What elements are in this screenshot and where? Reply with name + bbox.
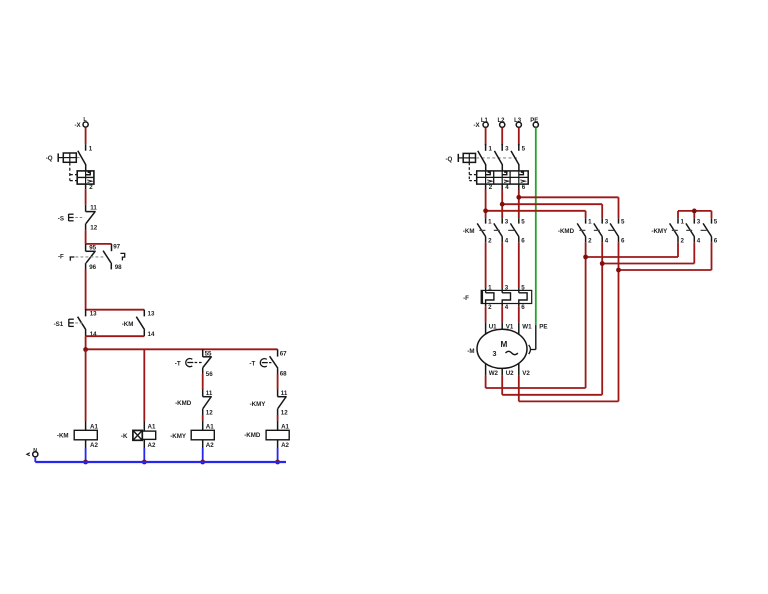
wire -KM coil to N bus xyxy=(85,440,87,462)
latching contact -KM (NO 13-14) xyxy=(136,310,144,337)
wire to supply bus xyxy=(85,336,87,349)
junction -KMD pole3 xyxy=(600,261,605,266)
wire -KM out to -F L1 xyxy=(485,242,487,288)
contactor coil -KMD xyxy=(266,430,289,440)
svg-text:-KMD: -KMD xyxy=(244,432,261,439)
svg-text:-X: -X xyxy=(474,122,481,129)
svg-text:A1: A1 xyxy=(90,423,98,430)
svg-text:3: 3 xyxy=(493,349,497,358)
wire -F to motor U1 xyxy=(485,304,487,335)
wire -K to N bus xyxy=(143,439,145,462)
svg-text:97: 97 xyxy=(113,244,120,251)
wire branch -K lamp xyxy=(143,349,145,431)
svg-text:-F: -F xyxy=(463,295,469,302)
svg-text:5: 5 xyxy=(521,218,525,225)
wire -Q out L3 xyxy=(518,184,520,218)
wire -KMD pole1 to -KMY pole2 xyxy=(586,242,678,257)
svg-text:6: 6 xyxy=(714,237,718,244)
junction -K at N bus xyxy=(142,460,147,465)
wire -F to motor V1 xyxy=(501,304,503,330)
svg-text:2: 2 xyxy=(681,237,685,244)
wire L2 to -Q xyxy=(501,128,503,146)
svg-text:A1: A1 xyxy=(148,423,156,430)
svg-text:N: N xyxy=(33,448,37,454)
svg-text:3: 3 xyxy=(505,145,509,152)
wire motor W2 xyxy=(485,364,487,388)
actuator of -S1 xyxy=(69,319,83,327)
contactor coil -KM xyxy=(74,430,97,440)
junction L2 feed xyxy=(500,202,505,207)
svg-text:3: 3 xyxy=(697,218,701,225)
svg-text:W2: W2 xyxy=(489,370,499,377)
svg-text:A2: A2 xyxy=(90,442,98,449)
wire -KMY coil to N bus xyxy=(202,440,204,462)
svg-text:96: 96 xyxy=(89,264,96,271)
actuator of -S xyxy=(69,214,85,221)
svg-text:5: 5 xyxy=(714,218,718,225)
terminal -X L3 xyxy=(514,118,522,127)
svg-text:2: 2 xyxy=(488,237,492,244)
svg-text:-S1: -S1 xyxy=(54,321,64,328)
svg-text:3: 3 xyxy=(505,284,509,291)
interlock contact -KMD (NC 11-12) xyxy=(203,390,212,416)
svg-text:56: 56 xyxy=(206,371,213,378)
wire -F to start branch xyxy=(85,270,87,310)
svg-text:1: 1 xyxy=(681,218,685,225)
wire -Q to -S xyxy=(85,184,87,205)
svg-text:4: 4 xyxy=(505,184,509,191)
svg-text:95: 95 xyxy=(89,245,96,252)
svg-text:4: 4 xyxy=(697,237,701,244)
circuit breaker -Q (manual motor starter) xyxy=(58,151,94,184)
wire -KMD pole3 to -KMY pole4 xyxy=(602,242,694,263)
svg-text:11: 11 xyxy=(90,204,97,211)
wire start-branch top xyxy=(86,309,145,311)
svg-text:-Q: -Q xyxy=(446,156,453,163)
timed contact -T (NO 67-68) xyxy=(270,356,278,374)
svg-text:5: 5 xyxy=(621,218,625,225)
junction -KMY at N bus xyxy=(200,460,205,465)
star contactor -KMY (3-pole) xyxy=(670,218,712,242)
svg-text:-Q: -Q xyxy=(46,155,53,162)
contactor coil -KMY xyxy=(191,430,214,440)
actuator of -F (thermal) xyxy=(70,257,105,261)
terminal -X PE xyxy=(530,118,538,127)
svg-text:-T: -T xyxy=(175,360,181,367)
svg-text:L2: L2 xyxy=(498,118,506,124)
wire to -KMD coil xyxy=(277,415,279,430)
wire -KM out to -F L3 xyxy=(518,242,520,288)
wire U2 to -KMD pole 3 xyxy=(502,242,602,394)
junction -KMD pole1 xyxy=(583,255,588,260)
terminal -X (L) xyxy=(83,117,88,127)
junction -KMD pole5 xyxy=(616,268,621,273)
svg-text:L3: L3 xyxy=(514,118,522,124)
svg-text:-X: -X xyxy=(75,122,82,129)
timer actuator (left) xyxy=(186,358,202,366)
svg-text:L1: L1 xyxy=(481,118,489,124)
PE wire (green) xyxy=(535,128,537,325)
wire V2 to -KMD pole 5 xyxy=(519,242,619,401)
svg-text:1: 1 xyxy=(488,218,492,225)
svg-text:A2: A2 xyxy=(206,442,214,449)
svg-text:A1: A1 xyxy=(281,423,289,430)
wire -T to -KMY interlock xyxy=(277,374,279,390)
pin 2 of -Q xyxy=(89,184,93,191)
feed wire L3 to -KMD pole 5 xyxy=(519,197,619,218)
junction star point xyxy=(692,209,697,214)
svg-text:A2: A2 xyxy=(148,442,156,449)
svg-text:5: 5 xyxy=(522,145,526,152)
svg-text:3: 3 xyxy=(505,218,509,225)
svg-text:2: 2 xyxy=(588,237,592,244)
svg-text:U2: U2 xyxy=(506,370,514,377)
feed wire L2 to -KMD pole 3 xyxy=(502,204,602,218)
junction -KM at N bus xyxy=(83,460,88,465)
circuit breaker -Q (3-pole) xyxy=(458,144,528,184)
svg-text:13: 13 xyxy=(148,311,155,318)
svg-text:5: 5 xyxy=(521,284,525,291)
junction L3 feed xyxy=(516,195,521,200)
trip hook of -F xyxy=(120,253,124,260)
wire N drop xyxy=(34,457,36,462)
wire W2 to -KMD pole 1 xyxy=(486,242,586,388)
svg-text:M: M xyxy=(501,340,508,349)
svg-text:6: 6 xyxy=(521,237,525,244)
svg-text:3: 3 xyxy=(605,218,609,225)
wire motor V2 xyxy=(518,364,520,402)
svg-text:12: 12 xyxy=(90,224,97,231)
wire -KMD pole5 to -KMY pole6 xyxy=(619,242,712,270)
wire -S to -F xyxy=(85,230,87,244)
svg-text:-T: -T xyxy=(249,360,255,367)
timer actuator (right) xyxy=(260,359,272,367)
svg-text:6: 6 xyxy=(522,184,526,191)
svg-text:A2: A2 xyxy=(281,442,289,449)
svg-text:-KMD: -KMD xyxy=(175,400,192,407)
wire L3 to -Q xyxy=(518,128,520,146)
svg-text:-M: -M xyxy=(467,348,474,355)
wire branch -KM coil xyxy=(85,349,87,421)
overload relay contact -F (NO 97-98) xyxy=(103,244,111,270)
overload relay contact -F (NC 95-96) xyxy=(86,244,96,270)
wire -KMD coil to N bus xyxy=(277,440,279,462)
wire -F to motor W1 xyxy=(518,304,520,335)
PE tab on motor xyxy=(529,325,536,354)
svg-text:6: 6 xyxy=(521,304,525,311)
feed wire L1 to -KMD pole 1 xyxy=(486,211,586,218)
svg-text:1: 1 xyxy=(588,218,592,225)
terminal N xyxy=(27,448,38,457)
svg-text:68: 68 xyxy=(280,371,287,378)
svg-text:2: 2 xyxy=(89,184,93,191)
svg-text:-KM: -KM xyxy=(122,321,134,328)
start pushbutton -S1 (NO 13-14) xyxy=(78,309,86,336)
wire -KM out to -F L2 xyxy=(501,242,503,288)
wire motor U2 xyxy=(501,368,503,395)
interlock contact -KMY (NC 11-12) xyxy=(278,390,287,416)
timed contact -T (NC 55-56) xyxy=(203,349,212,374)
wire bus corner to -T NO xyxy=(277,349,279,356)
svg-text:14: 14 xyxy=(148,331,155,338)
svg-text:2: 2 xyxy=(489,184,493,191)
svg-text:-KMY: -KMY xyxy=(651,228,668,235)
main contactor -KM (3-pole) xyxy=(477,218,519,242)
svg-text:-S: -S xyxy=(58,215,64,222)
wire L1 to -Q xyxy=(485,128,487,146)
terminal -X L2 xyxy=(498,118,506,127)
svg-text:11: 11 xyxy=(281,390,288,397)
delta contactor -KMD (3-pole) xyxy=(577,218,619,242)
svg-text:PE: PE xyxy=(530,118,538,124)
wire start-branch bottom xyxy=(86,335,145,337)
overload relay -F (3-pole) xyxy=(481,288,532,304)
svg-text:12: 12 xyxy=(206,409,213,416)
motor -M (3~) xyxy=(477,329,527,368)
wire to -KMY coil xyxy=(202,415,204,430)
wire L rail top xyxy=(85,127,87,144)
neutral bus wire N xyxy=(35,461,286,463)
svg-text:-KM: -KM xyxy=(57,433,69,440)
svg-text:-KMD: -KMD xyxy=(558,228,575,235)
svg-text:12: 12 xyxy=(281,409,288,416)
svg-text:A1: A1 xyxy=(206,423,214,430)
wire -T to -KMD interlock xyxy=(202,374,204,390)
svg-text:2: 2 xyxy=(488,304,492,311)
junction control bus xyxy=(83,347,88,352)
svg-text:55: 55 xyxy=(205,350,212,357)
svg-text:-KMY: -KMY xyxy=(250,401,267,408)
svg-text:98: 98 xyxy=(115,264,122,271)
svg-text:11: 11 xyxy=(206,390,213,397)
control bus wire xyxy=(86,348,278,350)
svg-text:-K: -K xyxy=(121,433,128,440)
svg-text:-KMY: -KMY xyxy=(170,433,187,440)
svg-text:-F: -F xyxy=(58,254,64,261)
svg-text:4: 4 xyxy=(505,304,509,311)
stop pushbutton -S (NC 11-12) xyxy=(86,205,96,231)
svg-text:W1: W1 xyxy=(522,324,532,331)
svg-text:1: 1 xyxy=(489,145,493,152)
wire node 95/97 branch xyxy=(86,243,112,245)
svg-text:4: 4 xyxy=(605,237,609,244)
wire -Q out L2 xyxy=(501,184,503,218)
svg-text:4: 4 xyxy=(505,237,509,244)
svg-text:67: 67 xyxy=(280,351,287,358)
indicator lamp -K xyxy=(133,430,156,440)
svg-text:6: 6 xyxy=(621,237,625,244)
junction -KMD at N bus xyxy=(275,460,280,465)
junction L1 feed xyxy=(483,208,488,213)
svg-text:1: 1 xyxy=(488,284,492,291)
svg-text:1: 1 xyxy=(89,145,93,152)
pin 1 of -Q xyxy=(86,144,93,152)
star point bridge wire xyxy=(678,211,712,218)
terminal -X L1 xyxy=(481,118,489,127)
wire -Q out L1 xyxy=(485,184,487,218)
svg-text:PE: PE xyxy=(539,324,547,331)
svg-text:13: 13 xyxy=(90,311,97,318)
svg-text:-KM: -KM xyxy=(463,228,475,235)
svg-text:V2: V2 xyxy=(522,370,530,377)
